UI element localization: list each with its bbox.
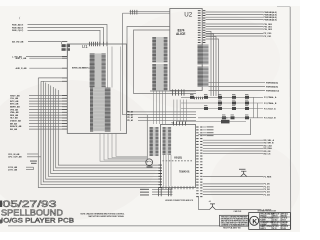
wire corners from below to U1 (2) bbox=[38, 77, 62, 79]
svg-text:SHEET 2 OF 6 A: SHEET 2 OF 6 A bbox=[260, 225, 272, 228]
svg-text:SC 1/1 D: SC 1/1 D bbox=[273, 226, 280, 228]
svg-text:SPELLBOUND: SPELLBOUND bbox=[1, 208, 63, 217]
resistor row interconnect verticals bbox=[253, 97, 255, 118]
wire X1 bbox=[177, 121, 246, 123]
IC U2 right strip block A bbox=[198, 45, 204, 65]
svg-text:PJ_D4: PJ_D4 bbox=[264, 193, 271, 196]
wire stub vertical from cluster bbox=[66, 48, 68, 57]
wire lower to U1 cluster bbox=[26, 56, 62, 58]
svg-text:PX_CK1: PX_CK1 bbox=[264, 36, 273, 38]
IC U1 left pin ticks bbox=[62, 42, 67, 130]
svg-text:PJ_XCLK_A: PJ_XCLK_A bbox=[264, 107, 276, 110]
corner nest wire bundle turning right bbox=[58, 90, 160, 165]
resistor network row 4 bbox=[198, 117, 263, 119]
title block grid lines bbox=[260, 213, 291, 230]
svg-text:U1: U1 bbox=[82, 44, 88, 49]
vertical wire x122.5 bbox=[122, 13, 124, 115]
scan artifact left edge blob bbox=[0, 201, 2, 208]
svg-text:PWRGB1(4:8): PWRGB1(4:8) bbox=[264, 13, 277, 16]
svg-text:PWRGB(5:8): PWRGB(5:8) bbox=[266, 86, 278, 88]
svg-text:PWRGB(9:12): PWRGB(9:12) bbox=[266, 90, 279, 92]
U8 right short net labels bbox=[203, 126, 206, 128]
svg-text:SHT 2 OF: SHT 2 OF bbox=[273, 214, 280, 216]
ferrite bead ticks bbox=[130, 10, 137, 15]
IC U8 inner pin strip bbox=[163, 127, 166, 155]
IC U2 right strip block B bbox=[198, 67, 204, 88]
svg-text:BG_AB: BG_AB bbox=[10, 128, 18, 131]
svg-text:IO/GS PLAYER PCB: IO/GS PLAYER PCB bbox=[1, 219, 74, 225]
crystal X1 bbox=[221, 120, 230, 124]
svg-text:PJ_P/MAL_A: PJ_P/MAL_A bbox=[264, 96, 277, 99]
wire pair U1 top to U2 left bbox=[130, 10, 170, 12]
IC U8 inner strip verticals down bbox=[163, 155, 165, 186]
IC U1 upper pin strip bbox=[90, 53, 95, 87]
resistor network row 3 bbox=[181, 108, 263, 110]
svg-text:PWRGB0(4:8): PWRGB0(4:8) bbox=[264, 11, 277, 14]
svg-text:PG 212: PG 212 bbox=[282, 228, 287, 230]
svg-text:CFG_IN_AB: CFG_IN_AB bbox=[8, 153, 20, 156]
wire top bus RGB_C(0:7) bbox=[28, 30, 101, 43]
IC U1 lower pin strip bbox=[90, 88, 93, 132]
net labels mid-left bottom bbox=[27, 153, 38, 155]
svg-text:PWRGB(0:4): PWRGB(0:4) bbox=[266, 82, 278, 85]
wire top bus RGB_B(0:7) bbox=[28, 28, 104, 44]
svg-text:RGB_C(0:7): RGB_C(0:7) bbox=[12, 30, 24, 32]
svg-text:RGB_A(0:7): RGB_A(0:7) bbox=[12, 23, 24, 26]
svg-text:ALICE: ALICE bbox=[176, 32, 185, 36]
svg-text:HLT_AB: HLT_AB bbox=[10, 117, 18, 120]
title block box 2 bbox=[249, 213, 291, 230]
IC U8 outline bbox=[161, 125, 196, 188]
svg-text:BERR_AB: BERR_AB bbox=[10, 106, 20, 109]
logo circle K bbox=[250, 216, 259, 225]
wire Q2 left stub bbox=[199, 196, 210, 210]
svg-text:VPA_AB: VPA_AB bbox=[10, 108, 19, 111]
IC U8 bottom pin row bbox=[163, 186, 193, 189]
svg-text:AN_VID_AB: AN_VID_AB bbox=[12, 40, 24, 43]
resistor network row 2 bbox=[181, 102, 263, 104]
svg-text:PD_A1: PD_A1 bbox=[127, 113, 133, 116]
svg-text:RD_CS: RD_CS bbox=[264, 154, 271, 156]
U8 right signal wires group 1 bbox=[203, 139, 263, 141]
scan artifact left edge blob 2 bbox=[0, 220, 2, 224]
resistor network row 1 bbox=[181, 96, 263, 98]
left signal wires to U1 with net labels bbox=[29, 57, 62, 59]
svg-text:PD_A3: PD_A3 bbox=[127, 119, 133, 122]
net labels lower-left pair bbox=[26, 166, 34, 168]
scan artifact top-left mark bbox=[18, 17, 21, 19]
label Q1 bbox=[239, 169, 246, 170]
IC U8 left outer pin strip bbox=[150, 127, 153, 156]
svg-text:PG 212 F: PG 212 F bbox=[282, 226, 288, 228]
wire top bus RGB_A(0:7) bbox=[28, 25, 108, 44]
IC U2 8374 ALICE outline bbox=[170, 9, 202, 91]
svg-text:RES_AB: RES_AB bbox=[10, 114, 19, 117]
svg-text:RD_RAS: RD_RAS bbox=[264, 147, 273, 150]
svg-text:PJ_P/MAL_B: PJ_P/MAL_B bbox=[264, 102, 277, 105]
svg-text:05/27/93: 05/27/93 bbox=[3, 199, 57, 209]
IC U8 right edge pin column bbox=[196, 127, 202, 197]
svg-text:27 93 05: 27 93 05 bbox=[282, 218, 288, 220]
svg-text:SHEET 2: SHEET 2 bbox=[260, 228, 266, 230]
title block box 1 bbox=[220, 215, 249, 226]
routing corner inner left of U2 bbox=[134, 30, 170, 94]
svg-text:PD_A2: PD_A2 bbox=[127, 116, 133, 119]
wire row below U2 y91 bbox=[150, 90, 196, 92]
svg-text:AUD_L_AB: AUD_L_AB bbox=[16, 57, 27, 60]
svg-text:CD 05 27: CD 05 27 bbox=[273, 218, 279, 220]
svg-text:TECH PCB ASSY NO: TECH PCB ASSY NO bbox=[223, 226, 241, 229]
tiny labels left of U8 bottom bbox=[140, 189, 149, 190]
page border bottom line bbox=[8, 225, 291, 227]
vertical wire x147.3 to C37 bbox=[146, 115, 148, 160]
svg-text:INT2_AB: INT2_AB bbox=[10, 100, 19, 103]
svg-text:AUD_R_AB: AUD_R_AB bbox=[16, 67, 27, 70]
routing corner U8 top-right bbox=[198, 119, 250, 135]
svg-text:LEGEND CONNECTORS AND ICS: LEGEND CONNECTORS AND ICS bbox=[165, 199, 194, 202]
svg-text:K: K bbox=[252, 218, 257, 225]
wire Q1 net bbox=[203, 176, 263, 178]
svg-text:DWG NO 4: DWG NO 4 bbox=[273, 221, 281, 224]
RAM strip verticals down bbox=[153, 91, 155, 125]
IC U2 right pin pairs bbox=[198, 11, 206, 43]
svg-text:PWRGB3(4:8): PWRGB3(4:8) bbox=[264, 18, 277, 21]
svg-text:XRDY_AB: XRDY_AB bbox=[10, 94, 20, 97]
transistor Q1 bbox=[241, 171, 247, 176]
capacitor C37 symbol bbox=[146, 159, 153, 166]
RAM pin strip upper bbox=[152, 37, 156, 63]
svg-text:PJ_D3: PJ_D3 bbox=[264, 192, 271, 194]
wire bundle U1 bottom bbox=[100, 133, 148, 161]
svg-text:MAY NOT BE LOADED WITH FUNKY S: MAY NOT BE LOADED WITH FUNKY SIGNAL bbox=[89, 215, 125, 218]
U2 right signal wires with net labels bbox=[206, 11, 263, 13]
resistor cluster near U1 top-left bbox=[62, 44, 66, 47]
svg-text:PW_OE2: PW_OE2 bbox=[264, 29, 273, 31]
svg-text:CAD FILE: CAD FILE bbox=[234, 210, 243, 213]
svg-text:OVL_AB: OVL_AB bbox=[10, 97, 19, 100]
svg-text:RGB_B(0:7): RGB_B(0:7) bbox=[12, 27, 24, 29]
svg-text:BGACK_AB: BGACK_AB bbox=[10, 125, 22, 128]
IC U8 top pin ticks bbox=[174, 121, 186, 125]
wire row below U2 y94 bbox=[134, 93, 197, 95]
IC U1 top pin ticks bbox=[90, 42, 108, 46]
svg-text:INTERACTIVE ENT. DIV: INTERACTIVE ENT. DIV bbox=[258, 210, 278, 213]
IC U1 inner vertical wires bbox=[107, 47, 109, 88]
pin ticks on rows below U2 bbox=[173, 89, 185, 95]
IC U2 bottom pin row bbox=[195, 97, 203, 99]
svg-text:PJ_XCLK_B: PJ_XCLK_B bbox=[264, 118, 276, 120]
svg-text:RD_WR_B: RD_WR_B bbox=[264, 143, 274, 145]
svg-text:BR_AB: BR_AB bbox=[10, 122, 17, 125]
IC U1 MC68EC000 outline bbox=[67, 44, 126, 133]
svg-text:PJ_D0: PJ_D0 bbox=[264, 184, 271, 186]
left signal bundle rows bbox=[29, 95, 62, 97]
svg-text:SC 1/1: SC 1/1 bbox=[273, 228, 277, 230]
svg-text:PJ_D2: PJ_D2 bbox=[264, 189, 271, 191]
svg-text:REV A1C: REV A1C bbox=[282, 213, 289, 216]
svg-text:PJ_RES: PJ_RES bbox=[264, 176, 272, 178]
svg-text:CFG_OUT_AB: CFG_OUT_AB bbox=[8, 156, 22, 159]
svg-text:RD_CAS: RD_CAS bbox=[264, 144, 273, 147]
svg-text:VMA_AB: VMA_AB bbox=[10, 111, 19, 114]
wire to U1 top-left cluster bbox=[28, 42, 62, 44]
IC U8 left bottom pin ticks bbox=[158, 165, 162, 187]
svg-text:RD_SEL_A: RD_SEL_A bbox=[264, 139, 275, 142]
wire +5V boot bbox=[216, 209, 262, 211]
routing corner outer left of U2 bbox=[127, 27, 170, 112]
wire rows below U8 bottom-left bbox=[152, 188, 173, 190]
svg-text:U8 [8]: U8 [8] bbox=[174, 156, 182, 160]
svg-text:RD_OE: RD_OE bbox=[264, 151, 272, 153]
svg-text:DTACK_AB: DTACK_AB bbox=[10, 120, 21, 123]
IC U8 internal pin row bbox=[163, 160, 194, 162]
PWRGB net wires with labels bbox=[209, 82, 266, 84]
svg-text:781643-01: 781643-01 bbox=[179, 170, 190, 173]
right vertical wire bundle from U2 bbox=[206, 32, 211, 97]
RAM pin strip lower bbox=[152, 64, 156, 91]
svg-text:U2: U2 bbox=[184, 12, 192, 19]
svg-text:INT6_AB: INT6_AB bbox=[10, 103, 19, 106]
svg-text:004212B: 004212B bbox=[282, 221, 289, 224]
U8 right signal wires group 2 bbox=[203, 183, 263, 185]
page border right edge bbox=[289, 7, 291, 230]
page border top-right segment bbox=[277, 6, 290, 8]
svg-text:CONSENT OF KONAMI INDUSTRY CO: CONSENT OF KONAMI INDUSTRY CO bbox=[221, 224, 249, 227]
label C37 bbox=[147, 166, 153, 167]
wire rows into U8 top with labels bbox=[127, 111, 196, 113]
transistor Q2 bbox=[210, 204, 216, 210]
verticals from U2 bottom to U8 top bbox=[173, 100, 175, 122]
tiny label cluster VCC bbox=[30, 161, 37, 162]
svg-text:JOY1_AB: JOY1_AB bbox=[8, 168, 18, 171]
svg-text:PD_A0: PD_A0 bbox=[127, 111, 133, 114]
